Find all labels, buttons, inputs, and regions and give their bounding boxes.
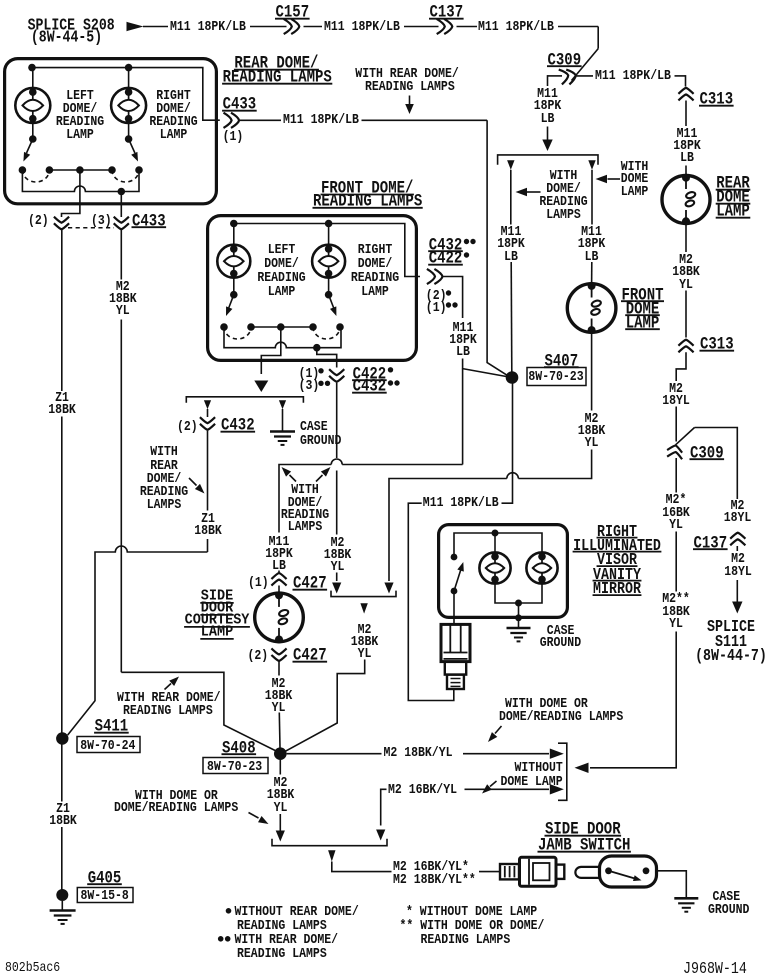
wire M2 18BK/YL jog to S408 <box>121 672 276 751</box>
annotation arrow with dome/reading (bracket left) <box>527 191 541 193</box>
right dome/reading lamp (rear) <box>128 68 130 90</box>
mirror top bus wire <box>454 533 542 557</box>
labels C433 (2)(3) <box>28 214 49 228</box>
case ground symbol (jamb switch) <box>674 897 698 900</box>
mirror switch contacts <box>451 554 458 561</box>
wire to jamb switch <box>332 862 392 872</box>
front dome/reading lamps box <box>208 216 417 361</box>
wire M11 18PK/LB down to S407 <box>487 120 507 375</box>
label ground G405 <box>88 870 122 888</box>
label left dome/reading lamp (front) <box>268 243 296 257</box>
connector C422/C432 below front box <box>329 369 344 375</box>
front dome lamp <box>567 284 616 333</box>
code J968W-14 <box>683 961 747 977</box>
junction dots on front top bus <box>230 220 238 228</box>
wire M11 18PK/LB left stub at C309 <box>548 75 563 77</box>
right illuminated visor vanity mirror box <box>439 525 568 618</box>
wire M2 18BK/YL below S408 <box>279 760 281 775</box>
wire Z1 jog to S411 with hop over M2 wire <box>68 546 208 735</box>
label case ground (jamb) <box>713 890 741 904</box>
annotation with dome or dome/reading lamps (right) <box>505 697 588 711</box>
rear center wire exit to C433(2) <box>62 170 80 217</box>
wire Z1 18BK S411 to G405 <box>61 745 63 802</box>
front contact link wire <box>251 326 313 328</box>
wire lamp to wiper (rear right) <box>128 119 130 140</box>
wire label M2 18BK YL (front dome) <box>585 412 599 426</box>
label C137 <box>430 4 464 22</box>
wire label M2 18BK/YL** <box>393 873 476 887</box>
splice S408 <box>274 747 287 760</box>
wire M2 16BK/YL corner <box>381 789 387 825</box>
jamb switch connector plug <box>520 857 557 886</box>
mirror switch wire into plug <box>453 591 455 624</box>
case ground wire (C432 side) <box>282 409 284 431</box>
connector C432 cavity 2 <box>200 417 215 423</box>
wire M11 18PK LB to C427 <box>278 571 280 573</box>
mirror connector plug middle <box>445 662 466 675</box>
wire jog below C313 <box>676 352 686 381</box>
rear contact link wire <box>49 169 112 171</box>
wire down to C313 <box>685 75 687 86</box>
wire label Z1 18BK (C433-2) <box>55 391 69 405</box>
wire Z1 18BK below C432(2) <box>207 431 209 511</box>
arrowhead M2 18BK/YL into without-bracket <box>550 749 564 759</box>
front box top bus wire <box>234 224 420 277</box>
label C157 <box>276 4 310 22</box>
wire label M11 18PK/LB <box>324 20 400 34</box>
junction dot on rear bus <box>118 188 126 196</box>
rear dome/reading lamps box <box>5 59 217 204</box>
label C427 (2) <box>248 649 269 663</box>
arrowhead M2 below S408 <box>276 831 285 842</box>
splice S407 <box>506 371 519 384</box>
wire label M2 18YL <box>669 382 683 396</box>
reference box S408 <box>203 758 268 774</box>
connector C427 cavity 1 <box>271 573 286 579</box>
rear dome lamp <box>662 176 710 224</box>
wire M11 18PK/LB C137-C309 <box>457 26 478 28</box>
connector C157 <box>284 19 292 34</box>
wire M11 18PK/LB to front dome lamp <box>591 170 593 225</box>
side door jamb switch body <box>600 856 657 887</box>
wire M2 18BK/YL below front dome lamp <box>591 331 593 411</box>
arrowhead M2 16BK/YL down <box>376 830 385 841</box>
annotation arrow with rear dome/reading (C432) <box>189 478 197 486</box>
annotation with rear dome/reading lamps (C432) <box>150 445 178 459</box>
annotation arrow with dome or dome/reading (left) <box>249 813 259 819</box>
rear dashed contact arc left <box>22 170 49 182</box>
wire M11 18PK/LB distribution line A <box>279 369 463 533</box>
arrowhead M2 wire into bracket <box>332 583 341 594</box>
bracket without dome lamp <box>558 743 567 800</box>
wire M11 18PK/LB right of C309 <box>577 75 594 77</box>
annotation with dome/reading lamps (bracket) <box>550 169 578 183</box>
ground G405 <box>56 889 68 901</box>
wire M2 18BK/YL from S408 to bracket right <box>287 753 382 755</box>
annotation with dome/reading lamps (center) <box>291 483 319 497</box>
arrowhead M2 16BK/YL into without-bracket <box>550 784 564 794</box>
wire M11 18PK/LB from S407 to visor mirror <box>408 384 512 701</box>
connector C313 (upper) <box>678 88 693 94</box>
front center wire exit <box>261 327 281 374</box>
wire M2 18BK/YL below C422 <box>336 383 338 458</box>
wire M11 18PK/LB from C422 to corner <box>443 277 508 377</box>
annotation arrow with dome lamp (bracket right) <box>608 178 621 180</box>
wire label M11 18PK LB <box>677 127 698 141</box>
connector C309 (top) <box>559 68 570 85</box>
jamb switch stem socket <box>575 867 599 878</box>
mirror lamp left <box>479 552 510 583</box>
mirror connector plug upper <box>441 624 470 661</box>
reference box S411 <box>77 737 140 753</box>
label C432 (2) <box>177 420 198 434</box>
label C313 lower <box>700 336 734 354</box>
wire combined M2 18BK/YL to S408 <box>286 660 365 752</box>
label C137 lower <box>694 535 728 553</box>
bracket with rear dome circuits <box>186 397 303 403</box>
left dome/reading lamp (rear) <box>32 68 34 90</box>
wire M11 18PK/LB C157-C137 <box>304 26 323 28</box>
feed triangle to C432(2) <box>204 400 211 409</box>
connector C137 (lower) <box>730 533 745 539</box>
label C309 lower <box>690 445 724 463</box>
wire M2 16BK/YL to bracket <box>465 788 550 790</box>
wire drop to C309 <box>597 27 599 49</box>
wire M2 18BK/YL from courtesy lamp to S408 <box>278 662 280 676</box>
labels C422/C432 (bottom) <box>299 367 320 381</box>
connector C433 cavity 1 <box>224 113 232 128</box>
label splice S407 <box>545 353 579 371</box>
label splice S411 <box>95 718 129 736</box>
wire to C432(2) <box>207 409 209 417</box>
jamb switch lever <box>609 871 635 879</box>
wire Z1 18BK from C433(2) <box>61 230 63 391</box>
case ground symbol (mirror) <box>507 627 531 630</box>
left dome/reading lamp (front) <box>233 224 235 247</box>
jamb switch contacts <box>605 867 612 874</box>
rear left wiper arrow <box>27 139 33 153</box>
wire label M2 18BK YL (C422 return) <box>331 536 345 550</box>
connector C427 cavity 2 <box>271 648 286 654</box>
wire label M2 16BK/YL* <box>393 860 469 874</box>
annotation with rear dome/reading lamps (top) <box>355 67 459 81</box>
reference box G405 <box>77 888 133 903</box>
wire label M2** 18BK YL <box>662 592 690 606</box>
wire label M2 18BK YL (below S408) <box>274 776 288 790</box>
label left dome/reading lamp (rear) <box>66 89 94 103</box>
feed triangle to case ground <box>279 400 286 409</box>
footnotes <box>235 905 359 919</box>
wire label M11 18PK/LB <box>478 20 554 34</box>
wire M11 18PK/LB from C433(1) <box>240 119 281 121</box>
label C433 (1) <box>223 96 257 114</box>
arrowhead line B into bracket <box>384 583 393 594</box>
wire label M2 18BK YL (C433-3) <box>116 280 130 294</box>
right dome/reading lamp (front) <box>328 224 330 247</box>
label splice S111 <box>707 619 755 635</box>
label C427 (1) <box>248 576 269 590</box>
wire label M11 18PK/LB <box>595 69 671 83</box>
wire M2 18YL above C137 <box>736 498 738 499</box>
rear switch contact dots <box>19 166 27 174</box>
annotation arrows with dome/reading lamps (center) <box>290 475 297 482</box>
C433 dashed connector link <box>68 227 114 229</box>
annotation with dome lamp <box>621 160 649 174</box>
M11 feed arrow from C309 <box>547 127 549 141</box>
wire M2** 18BK/YL to jamb switch bracket <box>590 632 676 768</box>
annotation arrow with rear dome (top) <box>409 96 411 106</box>
hop of line A over M2 wire <box>331 459 342 464</box>
junction dot mirror ground <box>515 600 522 607</box>
wire M2 18BK/YL below rear dome lamp <box>685 222 687 252</box>
wire C309 corner down <box>547 75 549 86</box>
connector C432/C422 right of front box <box>427 269 435 284</box>
splice S208 feed arrow <box>127 22 144 31</box>
wire label M11 18PK LB (C309 feed) <box>537 87 558 101</box>
ground symbol G405 <box>50 909 76 912</box>
wire lamp to wiper (front left) <box>233 274 235 295</box>
wire label M2 18YL (S111) <box>731 552 745 566</box>
feed triangle left (with dome/reading lamps) <box>507 160 514 170</box>
front bus exit jog to C422/C432 <box>317 348 337 368</box>
junction dot on front bus <box>313 344 321 352</box>
triangle below bracket <box>360 603 367 613</box>
arrow to splice S111 <box>736 580 738 602</box>
annotation arrow with dome or dome/reading (right) <box>495 726 502 734</box>
annotation with dome or dome/reading lamps (left) <box>135 789 218 803</box>
label right dome/reading lamp (rear) <box>156 89 191 103</box>
front contact bus U wire with hop <box>224 327 341 348</box>
rear right wire exit to C433(3) <box>120 192 122 218</box>
label side door courtesy lamp <box>201 590 233 605</box>
wire label Z1 18BK (C432) <box>201 512 215 526</box>
connector C137 <box>437 19 445 34</box>
label case ground (mirror) <box>547 624 575 638</box>
labels C432/C422 (right) <box>429 237 463 255</box>
wire label M11 18PK/LB <box>170 20 246 34</box>
wire M2 return line B with hop over S407 wire <box>389 450 592 582</box>
wire label M11 18PK LB (courtesy) <box>269 535 290 549</box>
feed triangle right (with dome lamp) <box>588 160 595 170</box>
bracket combined M2 return <box>331 591 396 597</box>
wire branch to C137 <box>695 428 738 499</box>
rear dashed contact arc right <box>112 170 139 182</box>
label splice S408 <box>222 740 256 758</box>
jamb switch wire ribbed terminal <box>500 864 519 879</box>
wire M11 18PK/LB from S208 <box>143 26 168 28</box>
C309 diagonal wire <box>572 49 599 81</box>
jamb switch ground wire <box>657 871 687 898</box>
reference box S407 <box>527 368 586 386</box>
wire label M11 18PK/LB (mirror) <box>423 496 499 510</box>
rear box top bus wire <box>32 68 220 121</box>
label rear dome lamp <box>716 175 750 193</box>
mirror lamps ground bus <box>495 580 542 604</box>
wire label Z1 18BK (S411) <box>56 802 70 816</box>
case ground symbol (front box) <box>270 430 295 433</box>
triangle below jamb bracket <box>328 850 335 861</box>
label C309 <box>548 52 582 70</box>
annotation with rear dome/reading lamps (S408) <box>117 691 221 705</box>
wire M2 18YL below C137 <box>736 546 738 551</box>
junction dots on rear top bus <box>28 64 36 72</box>
bracket jamb switch feed <box>272 839 387 846</box>
title front dome/reading lamps <box>321 180 413 198</box>
wire lamp to wiper (rear left) <box>32 119 34 140</box>
wire M2 18YL to C309 <box>675 407 677 442</box>
wire lamp to wiper (front right) <box>328 274 330 295</box>
wire M11 18PK/LB to rear dome lamp <box>685 101 687 127</box>
title side door jamb switch <box>545 821 621 839</box>
annotation arrow with rear dome/reading (S408 wire) <box>165 684 172 690</box>
annotation without dome lamp <box>515 761 563 775</box>
connector C433 cavity 2 <box>54 217 69 223</box>
wire bus to left mirror lamp <box>494 533 496 553</box>
rear right wiper arrow <box>129 139 135 153</box>
connector C309 (lower) <box>667 444 683 453</box>
wire label M2* 16BK YL <box>666 493 687 507</box>
arrowhead into without-dome-lamp bracket from right <box>575 763 589 773</box>
C309 lower diagonal branch <box>676 428 695 445</box>
label case ground (front) <box>300 420 328 434</box>
label right dome/reading lamp (front) <box>358 243 393 257</box>
mirror lamp right <box>526 552 557 583</box>
side door courtesy lamp <box>255 593 304 642</box>
rear contact bus U wire with hop <box>22 170 139 192</box>
title rear dome/reading lamps <box>234 55 318 73</box>
wire label M2 18YL (C137) <box>731 499 745 513</box>
junction dot mirror bus <box>492 530 499 537</box>
wire label M11 18PK LB (C422) <box>453 321 474 335</box>
wire label M2 18BK YL (courtesy out) <box>272 677 286 691</box>
front right wiper arrow <box>329 295 334 308</box>
wire label M2 18BK/YL <box>384 746 453 760</box>
wire M11 18PK/LB to S407 <box>510 170 512 225</box>
wire label M2 18BK YL (rear dome) <box>679 253 693 267</box>
mirror switch wiper arrow <box>454 570 461 591</box>
label right illuminated visor vanity mirror <box>597 524 637 540</box>
front left wiper arrow <box>229 295 234 308</box>
wire label M2 16BK/YL <box>388 783 457 797</box>
connector C433 cavity 3 <box>114 217 129 223</box>
wire M2 18BK/YL from C433(3) <box>120 230 122 280</box>
wire label M11 18PK LB (front dome) <box>581 225 602 239</box>
label C313 <box>700 91 734 109</box>
code 802b5ac6 <box>5 961 60 975</box>
front dashed contact arc right <box>313 327 340 339</box>
splice S411 <box>56 732 68 744</box>
label splice S208 <box>28 17 115 34</box>
front switch contact dots <box>220 323 228 331</box>
wire M2* 16BK/YL below C309 <box>675 458 677 493</box>
wire label M11 18PK LB (S407) <box>501 225 522 239</box>
annotation arrow without dome lamp <box>490 781 497 787</box>
mirror connector plug lower <box>447 675 464 689</box>
arrow from front box to bracket <box>254 381 268 393</box>
label front dome lamp <box>622 287 664 305</box>
bracket dome lamp circuits (top) <box>498 155 598 165</box>
wire label M11 18PK/LB <box>283 113 359 127</box>
front dashed contact arc left <box>224 327 251 339</box>
mirror case ground wire <box>518 603 520 627</box>
connector C313 (lower) <box>678 340 693 346</box>
wire C427 to courtesy lamp <box>278 586 280 596</box>
wire label M2 18BK YL (combined) <box>358 623 372 637</box>
